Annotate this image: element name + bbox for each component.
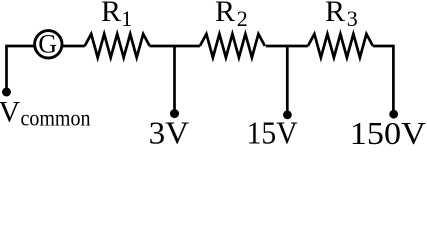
label R1 (101, 0, 132, 31)
svg-text:2: 2 (237, 6, 248, 31)
wire R2 to R3 (node B segment) (266, 45, 308, 48)
node A terminal dot (3V) (170, 109, 179, 118)
wire R3 to right corner (373, 45, 394, 48)
wire left vertical (V_common branch) (5, 46, 8, 90)
svg-text:common: common (21, 105, 91, 130)
resistor R2 (200, 34, 265, 58)
resistor R1 (85, 34, 150, 58)
svg-text:G: G (38, 30, 57, 59)
label R2 (215, 0, 248, 31)
node V_common terminal dot (2, 88, 11, 97)
wire right vertical (150V branch) (392, 45, 395, 112)
label 150V (350, 115, 426, 151)
label 3V (149, 115, 190, 151)
svg-text:3V: 3V (149, 115, 190, 146)
svg-text:15V: 15V (247, 115, 298, 146)
galvanometer U1 (G meter) (35, 30, 62, 59)
label R3 (325, 0, 358, 31)
svg-text:R: R (101, 0, 121, 28)
wire top-left horizontal to galvanometer (5, 45, 34, 48)
node 150V terminal dot (389, 110, 398, 119)
wire R1 to R2 (node A segment) (150, 45, 200, 48)
svg-text:V: V (0, 96, 21, 129)
svg-text:R: R (325, 0, 345, 28)
label V_common (0, 96, 91, 131)
node B terminal dot (15V) (283, 110, 292, 119)
svg-text:150V: 150V (350, 115, 426, 146)
label 15V (247, 115, 298, 151)
svg-text:R: R (215, 0, 235, 28)
wire galvanometer to R1 (63, 45, 85, 48)
svg-text:1: 1 (121, 6, 132, 31)
svg-text:3: 3 (347, 6, 358, 31)
node A: 3V tap wire (173, 46, 176, 111)
node B: 15V tap wire (286, 46, 289, 112)
resistor R3 (308, 34, 373, 58)
